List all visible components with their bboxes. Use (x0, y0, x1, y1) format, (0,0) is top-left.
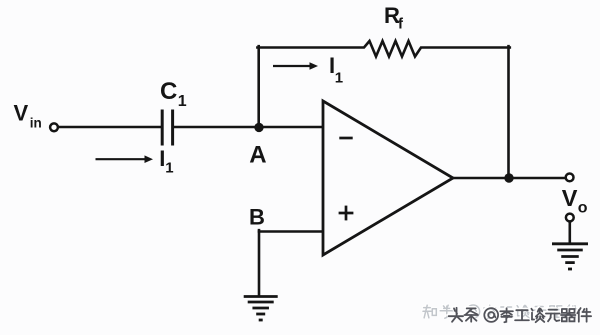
svg-text:1: 1 (335, 70, 343, 87)
svg-text:V: V (14, 101, 29, 126)
svg-text:1: 1 (178, 93, 187, 110)
svg-text:1: 1 (165, 160, 173, 177)
svg-text:o: o (578, 200, 588, 217)
svg-text:in: in (30, 116, 42, 131)
svg-text:V: V (562, 185, 578, 211)
svg-text:B: B (249, 205, 265, 230)
svg-text:A: A (249, 142, 266, 169)
svg-text:C: C (160, 78, 177, 105)
